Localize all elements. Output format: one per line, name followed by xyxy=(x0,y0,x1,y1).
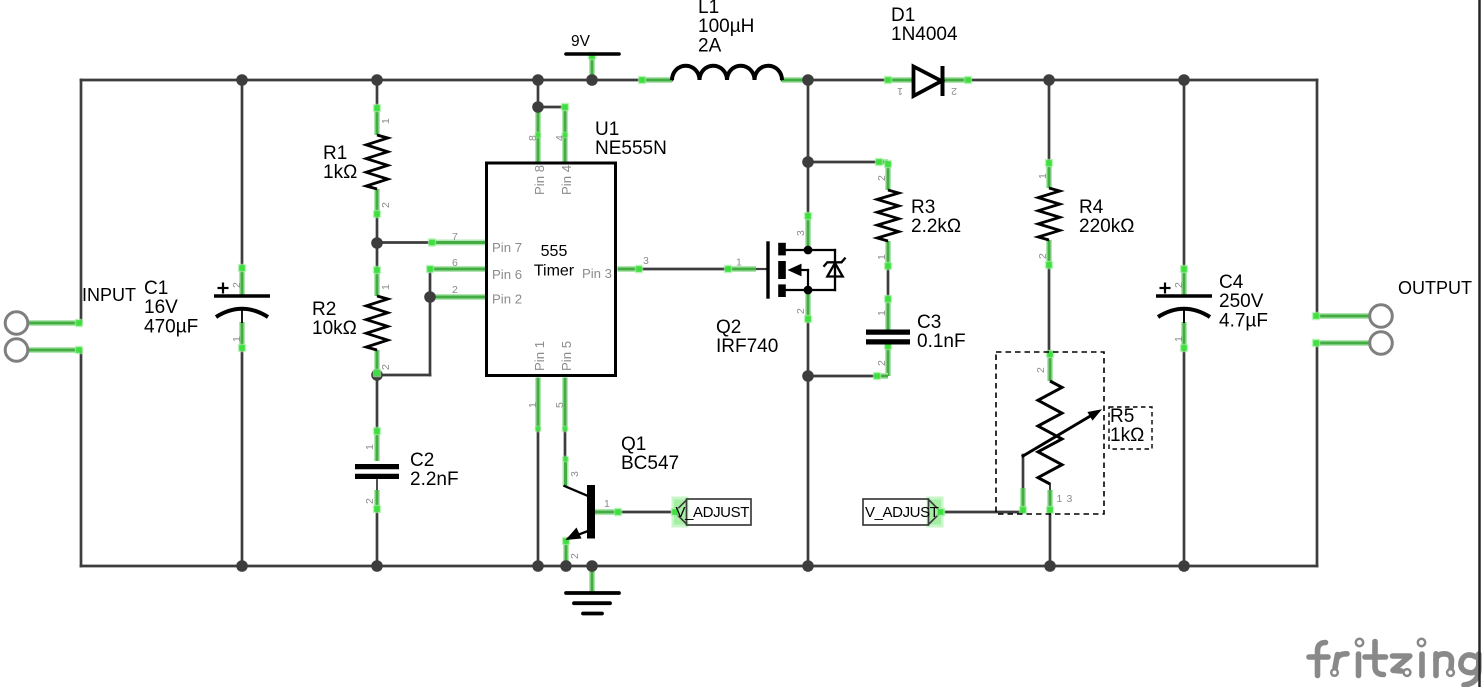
svg-text:Pin 5: Pin 5 xyxy=(559,341,574,371)
svg-text:R5: R5 xyxy=(1110,406,1134,427)
svg-text:2: 2 xyxy=(231,282,243,288)
svg-text:1: 1 xyxy=(231,336,243,342)
svg-text:D1: D1 xyxy=(891,5,915,26)
svg-text:Pin 2: Pin 2 xyxy=(492,292,522,307)
svg-text:2: 2 xyxy=(380,364,392,370)
svg-text:1: 1 xyxy=(1057,493,1063,505)
svg-text:1: 1 xyxy=(897,85,903,97)
svg-text:OUTPUT: OUTPUT xyxy=(1398,278,1472,298)
svg-text:10kΩ: 10kΩ xyxy=(312,318,357,339)
svg-text:R4: R4 xyxy=(1079,197,1104,218)
svg-text:6: 6 xyxy=(452,257,458,269)
svg-text:4.7µF: 4.7µF xyxy=(1219,310,1268,331)
svg-text:2: 2 xyxy=(364,498,376,504)
svg-text:2.2nF: 2.2nF xyxy=(410,469,459,490)
svg-text:470µF: 470µF xyxy=(144,316,198,337)
svg-text:C4: C4 xyxy=(1219,272,1244,293)
svg-text:Q1: Q1 xyxy=(621,434,646,455)
svg-text:1: 1 xyxy=(380,118,392,124)
svg-text:V_ADJUST: V_ADJUST xyxy=(676,504,750,521)
svg-text:1: 1 xyxy=(604,498,610,510)
svg-text:5: 5 xyxy=(554,402,566,408)
svg-text:INPUT: INPUT xyxy=(82,285,136,305)
svg-text:3: 3 xyxy=(795,230,807,236)
svg-text:IRF740: IRF740 xyxy=(716,336,778,357)
svg-text:1N4004: 1N4004 xyxy=(891,24,958,45)
svg-text:V_ADJUST: V_ADJUST xyxy=(865,504,939,521)
svg-text:Pin 1: Pin 1 xyxy=(532,341,547,371)
svg-text:Pin 7: Pin 7 xyxy=(492,240,522,255)
svg-text:7: 7 xyxy=(452,231,458,243)
svg-text:1kΩ: 1kΩ xyxy=(323,162,357,183)
svg-text:1: 1 xyxy=(527,402,539,408)
svg-text:2: 2 xyxy=(569,553,581,559)
svg-text:R3: R3 xyxy=(911,197,935,218)
svg-text:1: 1 xyxy=(364,444,376,450)
svg-text:2: 2 xyxy=(380,202,392,208)
svg-text:2A: 2A xyxy=(698,35,722,56)
svg-text:100µH: 100µH xyxy=(698,16,754,37)
svg-text:1: 1 xyxy=(1037,173,1049,179)
svg-text:C1: C1 xyxy=(144,278,168,299)
svg-text:2: 2 xyxy=(1037,253,1049,259)
svg-text:2.2kΩ: 2.2kΩ xyxy=(911,216,961,237)
svg-text:R1: R1 xyxy=(323,143,347,164)
svg-text:U1: U1 xyxy=(595,119,619,140)
svg-text:2: 2 xyxy=(795,308,807,314)
svg-text:Q2: Q2 xyxy=(716,317,741,338)
svg-text:3: 3 xyxy=(569,471,581,477)
svg-text:C3: C3 xyxy=(917,312,941,333)
svg-text:C2: C2 xyxy=(410,450,434,471)
svg-text:2: 2 xyxy=(452,284,458,296)
svg-text:Timer: Timer xyxy=(534,263,575,280)
svg-text:Pin 4: Pin 4 xyxy=(559,165,574,195)
svg-text:1: 1 xyxy=(876,254,888,260)
svg-text:250V: 250V xyxy=(1219,291,1264,312)
svg-text:1: 1 xyxy=(1173,336,1185,342)
svg-text:16V: 16V xyxy=(144,297,178,318)
svg-text:1: 1 xyxy=(876,310,888,316)
svg-text:0.1nF: 0.1nF xyxy=(917,331,966,352)
svg-text:2: 2 xyxy=(876,360,888,366)
svg-text:1: 1 xyxy=(736,257,742,269)
svg-text:9V: 9V xyxy=(571,33,591,50)
svg-text:555: 555 xyxy=(541,243,568,260)
svg-text:2: 2 xyxy=(1035,367,1047,373)
svg-text:2: 2 xyxy=(951,85,957,97)
svg-text:3: 3 xyxy=(1067,493,1073,505)
svg-text:2: 2 xyxy=(1173,282,1185,288)
svg-text:BC547: BC547 xyxy=(621,453,679,474)
svg-text:Pin 6: Pin 6 xyxy=(492,267,522,282)
svg-text:3: 3 xyxy=(643,255,649,267)
svg-text:2: 2 xyxy=(876,175,888,181)
svg-text:1kΩ: 1kΩ xyxy=(1110,425,1144,446)
svg-text:Pin 8: Pin 8 xyxy=(532,165,547,195)
svg-text:4: 4 xyxy=(554,135,566,141)
svg-text:NE555N: NE555N xyxy=(595,138,667,159)
svg-text:8: 8 xyxy=(527,135,539,141)
svg-text:Pin 3: Pin 3 xyxy=(582,266,612,281)
svg-text:220kΩ: 220kΩ xyxy=(1079,216,1134,237)
svg-text:R2: R2 xyxy=(312,299,336,320)
svg-text:1: 1 xyxy=(380,284,392,290)
